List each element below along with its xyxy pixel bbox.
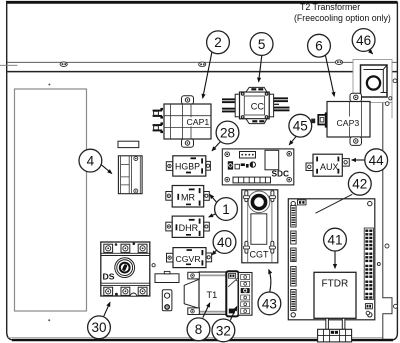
svg-text:(Freecooling option only): (Freecooling option only) bbox=[294, 13, 391, 23]
svg-text:46: 46 bbox=[356, 33, 371, 48]
T2 area screw b bbox=[389, 97, 392, 100]
svg-text:CAP3: CAP3 bbox=[337, 118, 360, 128]
leader line callout 42 bbox=[316, 194, 353, 213]
capacitor CAP1 mounting ear top bbox=[182, 96, 194, 105]
capacitor CAP3 ear bottom bbox=[350, 137, 362, 146]
callout 5 bbox=[250, 33, 273, 56]
FTDR stems bbox=[326, 318, 329, 329]
right margin screw a bbox=[385, 244, 389, 248]
transformer T1 bottom flange bbox=[188, 308, 200, 315]
board left connector strip 5 bbox=[291, 290, 296, 311]
arrow callout 28 bbox=[212, 142, 220, 151]
arrow callout 8 bbox=[203, 303, 210, 318]
disconnect switch DS bbox=[101, 242, 150, 296]
arrow callout 6 bbox=[325, 55, 334, 97]
relay HGBP bbox=[166, 156, 210, 176]
callout 45 bbox=[289, 114, 312, 137]
svg-text:41: 41 bbox=[327, 233, 342, 248]
arrow callout 1 upper bbox=[210, 195, 217, 203]
panel right border bbox=[391, 2, 397, 340]
callout 1 bbox=[215, 198, 238, 221]
callout 28 bbox=[216, 121, 239, 144]
svg-text:T2 Transformer: T2 Transformer bbox=[300, 2, 360, 12]
DS knob bbox=[115, 258, 135, 278]
hood band lower line bbox=[7, 71, 397, 73]
svg-text:43: 43 bbox=[262, 296, 277, 311]
right inner panel edge with bump bbox=[383, 72, 392, 339]
capacitor CAP1 body bbox=[164, 104, 211, 139]
callout 30 bbox=[88, 316, 111, 339]
board left connector strip 4 bbox=[291, 267, 296, 287]
latch fastener middle bbox=[199, 62, 206, 67]
main control board bbox=[288, 199, 375, 320]
svg-text:CGVR: CGVR bbox=[176, 254, 201, 264]
DS top terminals bbox=[104, 242, 147, 252]
contactor CC flange left bbox=[235, 94, 239, 117]
relay block item 4 bbox=[118, 156, 142, 194]
latch fastener right bbox=[335, 60, 342, 65]
callout 41 bbox=[324, 228, 347, 251]
SDC relay bbox=[265, 150, 279, 170]
arrow callout 40 bbox=[212, 250, 217, 255]
board right small connector bbox=[365, 304, 372, 309]
svg-text:44: 44 bbox=[369, 153, 385, 168]
transformer T1 top flange bbox=[188, 272, 200, 279]
arrow callout 2 bbox=[203, 53, 212, 99]
board top-left connector bbox=[298, 200, 307, 205]
svg-text:CAP1: CAP1 bbox=[187, 117, 210, 127]
arrow callout 45 bbox=[289, 136, 296, 145]
callout 44 bbox=[365, 149, 388, 172]
relay AUX bbox=[306, 154, 349, 176]
relay 1DHR bbox=[166, 216, 210, 237]
right margin screw c bbox=[394, 304, 398, 308]
callout 46 bbox=[352, 29, 375, 52]
arrow callout 5 bbox=[259, 56, 262, 82]
inner bottom edge line bbox=[8, 337, 383, 339]
board left connector strip 3 bbox=[291, 248, 296, 262]
svg-text:CGT: CGT bbox=[250, 250, 270, 260]
left tick on hood band bbox=[0, 64, 18, 66]
svg-text:CC: CC bbox=[251, 101, 265, 111]
transformer T1 terminal strip bbox=[239, 273, 253, 316]
arrow callout 43 bbox=[269, 270, 271, 292]
relay 1MR bbox=[166, 186, 210, 208]
svg-text:DHR: DHR bbox=[179, 223, 199, 233]
svg-text:8: 8 bbox=[195, 322, 203, 337]
contactor CC corner screws bbox=[241, 92, 269, 119]
small fuse holder below bbox=[162, 290, 172, 311]
latch fastener left bbox=[60, 62, 67, 67]
svg-text:40: 40 bbox=[217, 235, 232, 250]
svg-text:42: 42 bbox=[352, 177, 367, 192]
transformer T1 winding left bbox=[184, 279, 199, 308]
contactor CC wires right bbox=[273, 97, 290, 111]
screw right of DS bbox=[152, 264, 155, 267]
callout 4 bbox=[79, 149, 102, 172]
svg-text:45: 45 bbox=[293, 119, 308, 134]
svg-text:2: 2 bbox=[214, 35, 222, 50]
relay CGVR bbox=[167, 248, 212, 268]
left door rectangle bbox=[15, 89, 87, 311]
callout 42 bbox=[348, 172, 371, 195]
T2 transformer cutout outline bbox=[353, 60, 392, 103]
callout 8 bbox=[187, 318, 210, 341]
FTDR bottom connector block bbox=[318, 329, 352, 342]
callout 32 bbox=[212, 319, 235, 342]
T2 area screw a bbox=[393, 79, 397, 83]
svg-text:AUX: AUX bbox=[320, 162, 339, 172]
T2 area screw c bbox=[385, 102, 389, 106]
svg-text:HGBP: HGBP bbox=[175, 162, 200, 172]
T2 transformer hole bbox=[367, 76, 380, 89]
svg-text:FTDR: FTDR bbox=[322, 278, 349, 289]
svg-text:6: 6 bbox=[315, 39, 323, 54]
svg-text:DS: DS bbox=[103, 272, 115, 282]
capacitor CAP3 ear top bbox=[350, 93, 362, 102]
small terminal strip left of T1 bbox=[155, 271, 179, 282]
callout 43 bbox=[258, 292, 281, 315]
right margin screw b bbox=[377, 263, 380, 266]
board left connector strip 1 bbox=[291, 206, 296, 228]
hood band upper line bbox=[7, 61, 397, 63]
callout 40 bbox=[213, 231, 236, 254]
arrow callout 46 bbox=[368, 49, 373, 54]
capacitor CAP3 terminal bbox=[311, 112, 327, 127]
panel top border bbox=[6, 1, 398, 4]
contactor CC flange right bbox=[269, 94, 273, 117]
transformer T1 right block bbox=[226, 271, 238, 316]
arrow callout 44 bbox=[352, 159, 365, 161]
SDC small parts bbox=[228, 161, 256, 169]
svg-text:28: 28 bbox=[220, 125, 235, 140]
DS bottom terminals bbox=[104, 287, 147, 296]
door dot top bbox=[48, 84, 50, 86]
current transformer CGT bbox=[242, 190, 278, 263]
board left connector strip 2 bbox=[291, 231, 296, 244]
SDC bottom connector bbox=[233, 177, 271, 183]
svg-text:30: 30 bbox=[91, 320, 106, 335]
door dot bottom bbox=[48, 319, 50, 321]
arrow callout 4 bbox=[101, 165, 112, 174]
board right connector column bbox=[364, 228, 373, 300]
small cover plate above relay block bbox=[118, 141, 139, 147]
contactor CC body bbox=[240, 92, 270, 119]
capacitor CAP1 terminals bbox=[153, 108, 163, 133]
capacitor CAP1 mounting ear bottom bbox=[182, 139, 194, 148]
callout 6 bbox=[308, 34, 331, 57]
panel bottom border bbox=[12, 339, 393, 341]
relay FTDR bbox=[314, 272, 356, 318]
arrow callout 1 lower bbox=[209, 214, 216, 217]
svg-text:T1: T1 bbox=[207, 290, 218, 300]
callout 2 bbox=[207, 31, 230, 54]
capacitor CAP3 body bbox=[327, 102, 370, 138]
panel left border bbox=[7, 2, 14, 340]
SDC board bbox=[222, 149, 293, 185]
board bottom-left screw hole bbox=[366, 311, 370, 315]
arrow callout 41 bbox=[334, 251, 336, 268]
T2 transformer body bbox=[361, 65, 388, 97]
SDC top connector bbox=[240, 152, 256, 159]
arrow callout 32 bbox=[230, 307, 237, 321]
svg-text:SDC: SDC bbox=[272, 169, 290, 179]
contactor CC inner face bbox=[244, 96, 264, 115]
T2 cutout side line bbox=[391, 103, 393, 119]
contactor CC wires left bbox=[222, 98, 236, 112]
svg-text:5: 5 bbox=[258, 37, 266, 52]
svg-text:MR: MR bbox=[181, 192, 195, 202]
svg-text:1: 1 bbox=[222, 202, 230, 217]
svg-text:32: 32 bbox=[216, 323, 231, 338]
transformer T1 core bbox=[199, 272, 226, 314]
arrow callout 30 bbox=[104, 302, 110, 316]
contactor CC top pin strip bbox=[246, 87, 267, 92]
svg-text:4: 4 bbox=[87, 154, 95, 169]
contactor CC bottom pin strip bbox=[246, 119, 267, 124]
